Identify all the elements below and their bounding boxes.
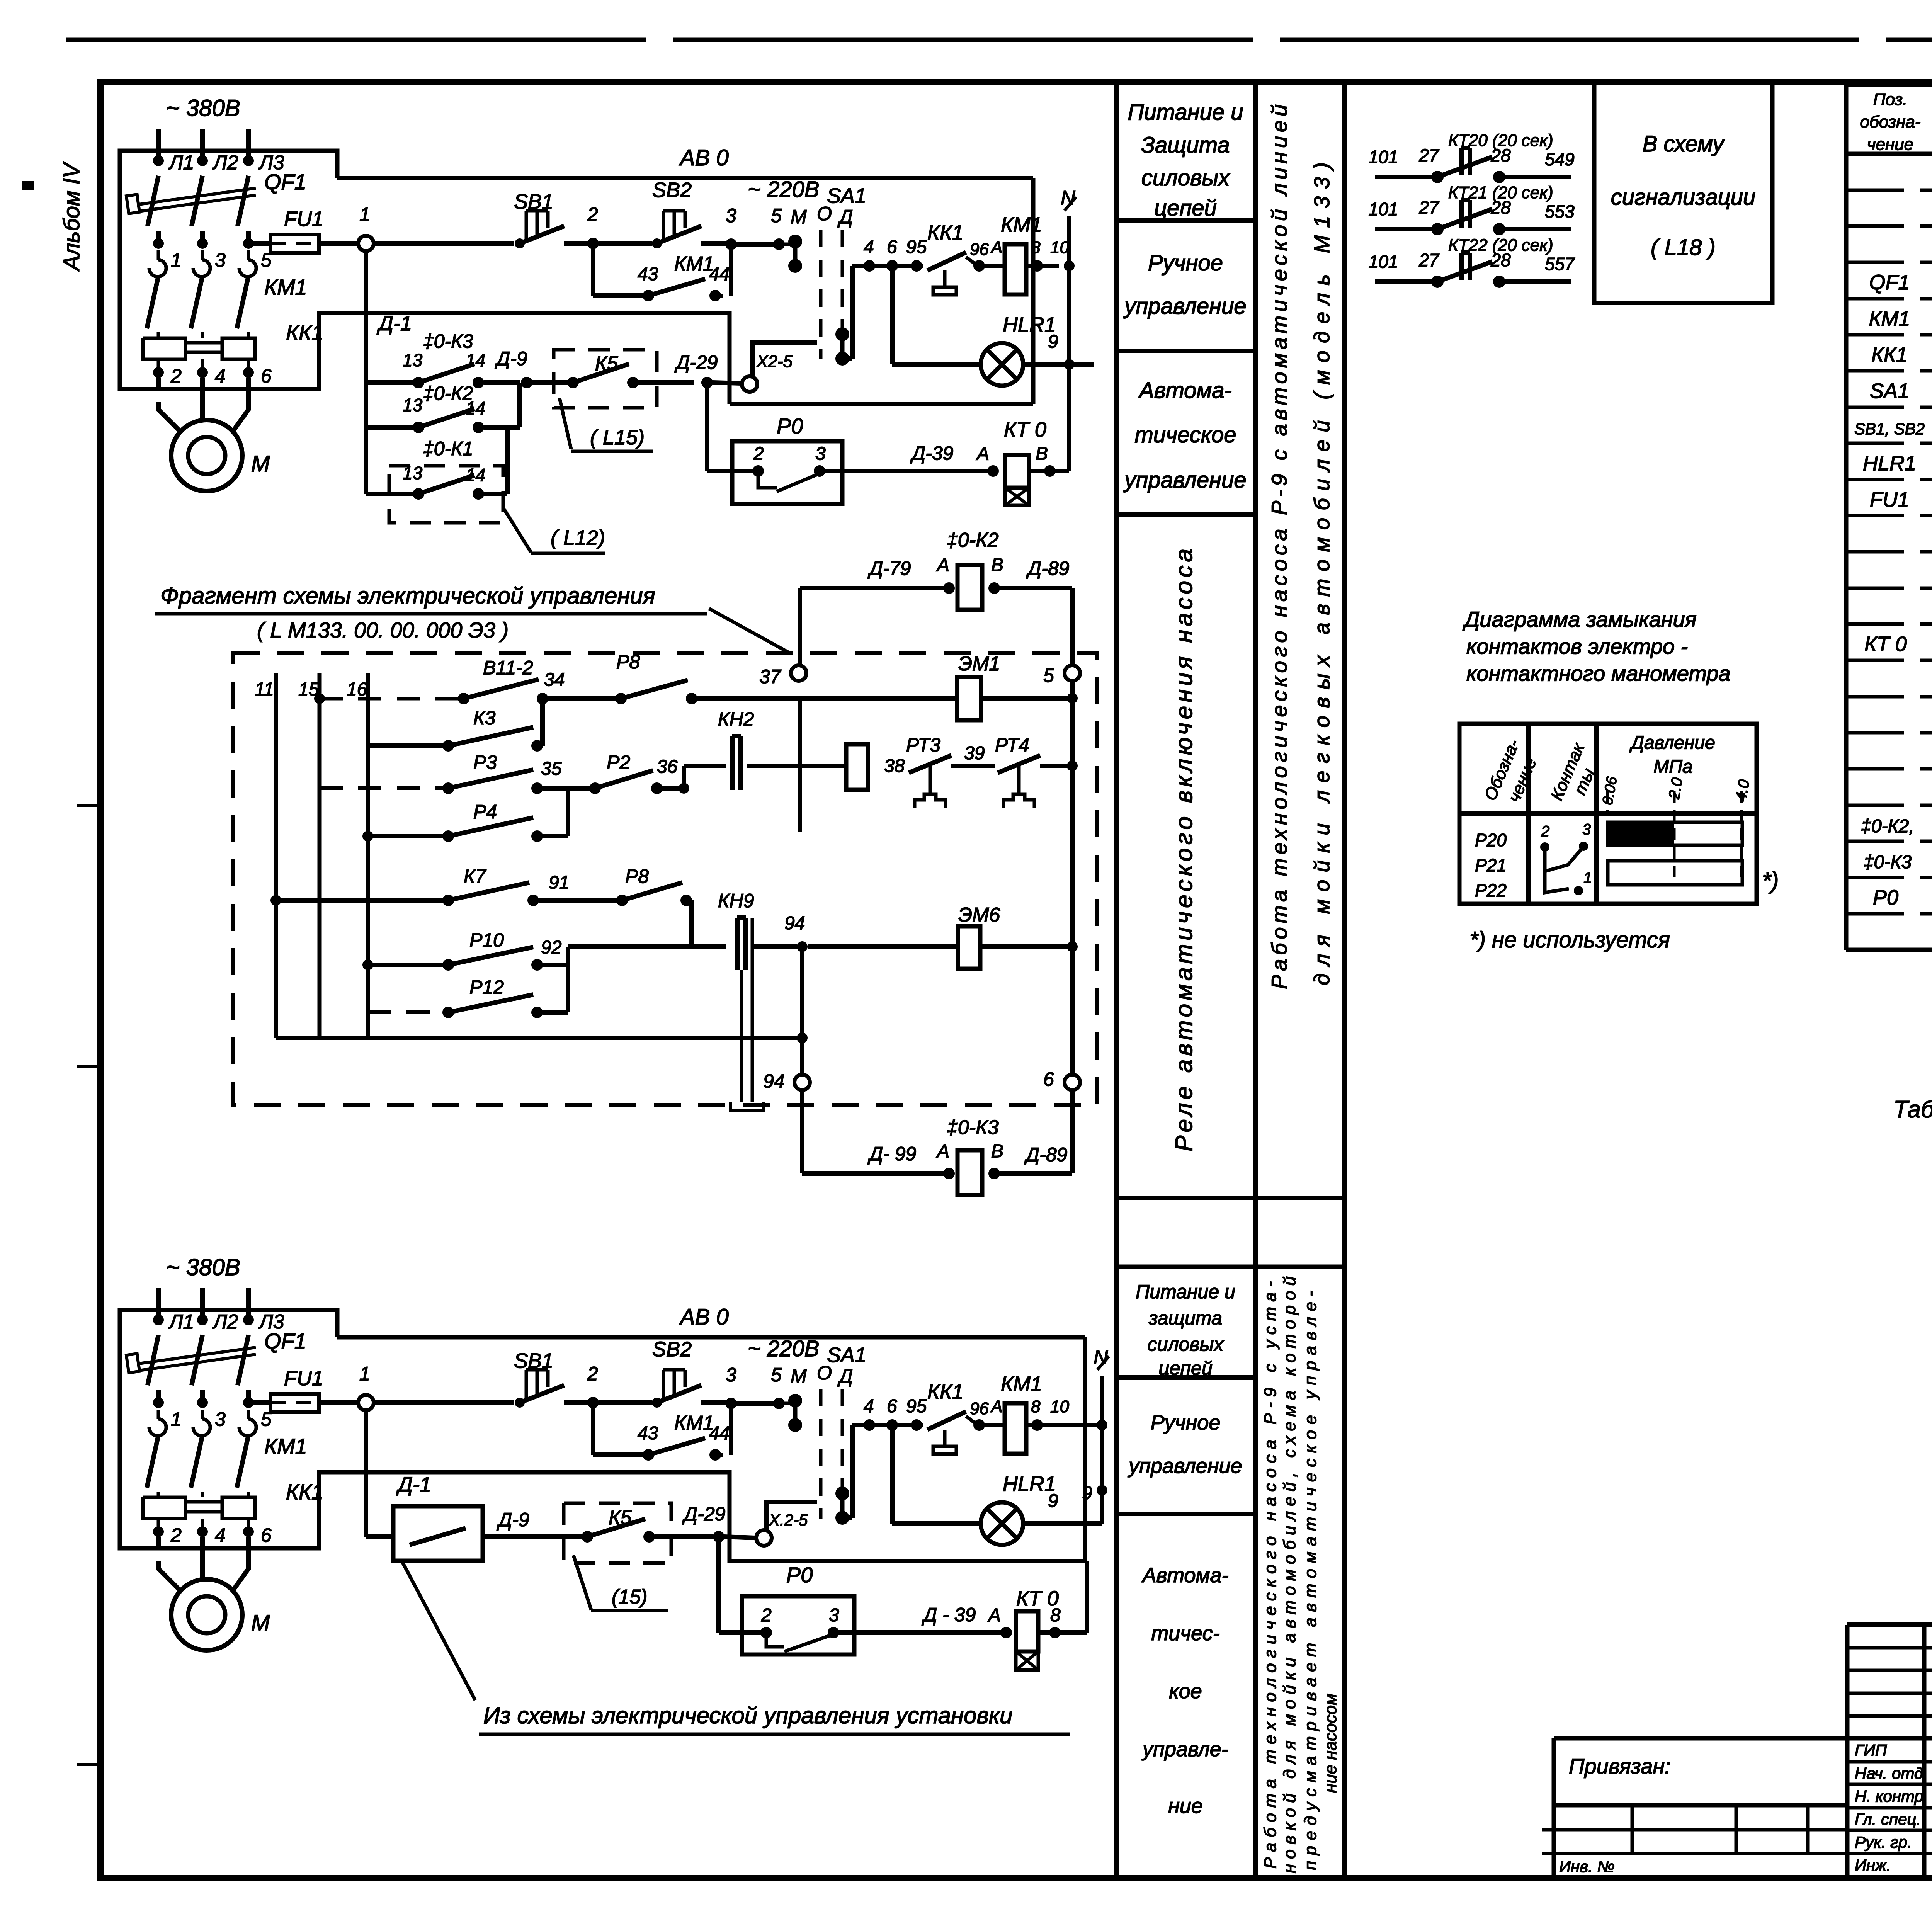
svg-text:101: 101 bbox=[1369, 252, 1398, 272]
svg-text:~ 220В: ~ 220В bbox=[748, 177, 819, 202]
svg-text:КМ1: КМ1 bbox=[1869, 307, 1910, 330]
svg-text:(15): (15) bbox=[612, 1586, 647, 1608]
svg-text:Из схемы электрической упр: Из схемы электрической управления устано… bbox=[483, 1702, 1013, 1728]
svg-text:( L18 ): ( L18 ) bbox=[1651, 235, 1716, 260]
svg-text:Привязан:: Привязан: bbox=[1569, 1754, 1671, 1778]
svg-text:SA1: SA1 bbox=[1870, 379, 1909, 403]
svg-text:‡0-К3: ‡0-К3 bbox=[423, 330, 473, 352]
svg-text:управление: управление bbox=[1127, 1454, 1242, 1478]
svg-text:9: 9 bbox=[1048, 332, 1058, 352]
svg-text:КТ 0: КТ 0 bbox=[1004, 418, 1046, 441]
svg-text:FU1: FU1 bbox=[1870, 488, 1909, 511]
svg-text:92: 92 bbox=[541, 937, 561, 958]
svg-text:Р3: Р3 bbox=[473, 752, 497, 773]
svg-text:4: 4 bbox=[864, 237, 874, 257]
svg-text:К5: К5 bbox=[609, 1507, 632, 1529]
svg-text:( L12): ( L12) bbox=[551, 526, 605, 549]
svg-text:9: 9 bbox=[1048, 1491, 1058, 1511]
svg-text:36: 36 bbox=[657, 757, 678, 777]
svg-text:тичес-: тичес- bbox=[1151, 1622, 1219, 1645]
svg-text:SB2: SB2 bbox=[652, 179, 692, 202]
svg-text:94: 94 bbox=[763, 1070, 785, 1092]
svg-text:тическое: тическое bbox=[1134, 422, 1236, 447]
svg-text:Рук. гр.: Рук. гр. bbox=[1855, 1833, 1912, 1851]
svg-text:Ручное: Ручное bbox=[1151, 1411, 1221, 1434]
svg-text:Давление: Давление bbox=[1629, 733, 1715, 753]
svg-text:цепей: цепей bbox=[1154, 196, 1217, 221]
svg-text:8: 8 bbox=[1031, 1397, 1041, 1416]
svg-text:МПа: МПа bbox=[1653, 757, 1692, 777]
svg-text:Д-39: Д-39 bbox=[910, 442, 953, 464]
svg-text:‡0-К2: ‡0-К2 bbox=[947, 529, 999, 551]
svg-text:‡0-К3: ‡0-К3 bbox=[1864, 852, 1912, 872]
svg-text:АВ 0: АВ 0 bbox=[679, 1304, 729, 1330]
svg-text:Л2: Л2 bbox=[212, 1311, 238, 1333]
svg-text:27: 27 bbox=[1418, 197, 1439, 218]
svg-text:43: 43 bbox=[638, 1423, 658, 1444]
svg-text:6: 6 bbox=[261, 1524, 272, 1546]
svg-text:Фрагмент схемы электрической: Фрагмент схемы электрической управления bbox=[160, 583, 655, 609]
svg-text:557: 557 bbox=[1545, 254, 1575, 274]
svg-text:SB1, SB2: SB1, SB2 bbox=[1854, 420, 1925, 438]
svg-text:Автома-: Автома- bbox=[1141, 1564, 1228, 1587]
svg-text:44: 44 bbox=[709, 1423, 730, 1444]
svg-text:Таблица применяемости: Таблица применяемости bbox=[1893, 1096, 1932, 1123]
svg-text:10: 10 bbox=[1050, 1397, 1069, 1416]
svg-text:М: М bbox=[791, 206, 807, 228]
svg-text:2: 2 bbox=[761, 1605, 772, 1626]
svg-text:3: 3 bbox=[1582, 821, 1591, 838]
svg-text:ЭМ1: ЭМ1 bbox=[958, 653, 1000, 675]
svg-text:Р8: Р8 bbox=[616, 651, 640, 673]
svg-text:управление: управление bbox=[1123, 468, 1246, 493]
svg-text:‡0-К3: ‡0-К3 bbox=[947, 1116, 999, 1139]
svg-text:SB1: SB1 bbox=[514, 1349, 553, 1372]
svg-text:КМ1: КМ1 bbox=[264, 275, 307, 299]
svg-text:Н. контр: Н. контр bbox=[1855, 1787, 1923, 1805]
svg-text:X2-5: X2-5 bbox=[756, 352, 793, 371]
svg-text:3: 3 bbox=[215, 1408, 226, 1430]
svg-text:Р12: Р12 bbox=[469, 976, 504, 998]
svg-text:Гл. спец.: Гл. спец. bbox=[1855, 1810, 1921, 1828]
svg-text:сигнализации: сигнализации bbox=[1611, 185, 1756, 210]
svg-text:Автома-: Автома- bbox=[1138, 378, 1232, 403]
svg-text:SA1: SA1 bbox=[827, 1344, 866, 1367]
svg-text:11: 11 bbox=[255, 679, 274, 700]
svg-text:1: 1 bbox=[171, 1408, 182, 1430]
svg-text:44: 44 bbox=[709, 264, 730, 284]
svg-text:В: В bbox=[991, 1141, 1003, 1162]
svg-text:X.2-5: X.2-5 bbox=[769, 1511, 808, 1529]
svg-text:~ 220В: ~ 220В bbox=[748, 1336, 819, 1361]
svg-text:Диаграмма замыкания: Диаграмма замыкания bbox=[1462, 607, 1697, 631]
svg-text:37: 37 bbox=[759, 666, 782, 687]
svg-text:управле-: управле- bbox=[1141, 1738, 1228, 1761]
svg-text:силовых: силовых bbox=[1141, 165, 1230, 190]
svg-text:Д-1: Д-1 bbox=[396, 1473, 431, 1496]
svg-text:Л1: Л1 bbox=[168, 151, 194, 174]
svg-text:чение: чение bbox=[1867, 135, 1913, 154]
svg-text:ГИП: ГИП bbox=[1855, 1741, 1887, 1759]
svg-text:КК1: КК1 bbox=[927, 221, 964, 244]
svg-text:КК1: КК1 bbox=[286, 320, 323, 345]
svg-text:1: 1 bbox=[171, 249, 182, 271]
svg-text:39: 39 bbox=[964, 743, 985, 764]
svg-text:КМ1: КМ1 bbox=[264, 1434, 307, 1458]
svg-text:Р21: Р21 bbox=[1475, 855, 1507, 875]
svg-text:Инв. №: Инв. № bbox=[1559, 1857, 1615, 1876]
svg-text:защита: защита bbox=[1148, 1307, 1222, 1329]
svg-text:АВ 0: АВ 0 bbox=[679, 145, 729, 170]
svg-text:КК1: КК1 bbox=[1871, 343, 1908, 366]
svg-text:‡0-К2: ‡0-К2 bbox=[423, 383, 473, 404]
svg-text:4: 4 bbox=[215, 1524, 226, 1546]
svg-text:( L М133. 00. 00. 000 Э3 ): ( L М133. 00. 00. 000 Э3 ) bbox=[257, 618, 509, 642]
svg-text:SA1: SA1 bbox=[827, 184, 866, 207]
svg-text:13: 13 bbox=[403, 350, 423, 370]
svg-text:101: 101 bbox=[1369, 147, 1398, 167]
svg-text:РТ4: РТ4 bbox=[995, 734, 1029, 756]
svg-text:Инж.: Инж. bbox=[1855, 1856, 1891, 1874]
svg-text:96: 96 bbox=[970, 240, 989, 259]
svg-text:‡0-К1: ‡0-К1 bbox=[423, 438, 473, 459]
svg-text:Д-89: Д-89 bbox=[1026, 558, 1069, 579]
svg-text:Д - 39: Д - 39 bbox=[922, 1604, 976, 1626]
svg-text:3: 3 bbox=[829, 1605, 839, 1626]
svg-text:Реле автоматического включения: Реле автоматического включения насоса bbox=[1171, 549, 1197, 1151]
svg-text:Д-9: Д-9 bbox=[495, 348, 527, 369]
svg-text:28: 28 bbox=[1490, 197, 1511, 218]
svg-text:94: 94 bbox=[784, 913, 805, 934]
svg-text:Д: Д bbox=[837, 206, 853, 228]
svg-text:Р0: Р0 bbox=[777, 414, 803, 438]
svg-text:М: М bbox=[791, 1365, 807, 1387]
svg-text:цепей: цепей bbox=[1158, 1357, 1213, 1379]
svg-text:QF1: QF1 bbox=[264, 170, 306, 194]
svg-text:HLR1: HLR1 bbox=[1863, 452, 1916, 475]
svg-text:96: 96 bbox=[970, 1399, 989, 1418]
svg-text:Р0: Р0 bbox=[1873, 886, 1898, 909]
svg-text:14: 14 bbox=[466, 465, 485, 485]
svg-text:Д-29: Д-29 bbox=[682, 1503, 725, 1525]
svg-text:91: 91 bbox=[549, 872, 569, 893]
svg-text:контактов электро -: контактов электро - bbox=[1466, 634, 1688, 658]
svg-text:силовых: силовых bbox=[1148, 1333, 1225, 1355]
svg-text:Р20: Р20 bbox=[1475, 830, 1507, 850]
svg-text:27: 27 bbox=[1418, 250, 1439, 270]
svg-text:6: 6 bbox=[261, 365, 272, 387]
svg-text:М: М bbox=[251, 451, 270, 476]
svg-text:Д: Д bbox=[837, 1365, 853, 1387]
svg-text:14: 14 bbox=[466, 350, 485, 370]
svg-text:Защита: Защита bbox=[1141, 133, 1230, 158]
svg-text:Поз.: Поз. bbox=[1873, 90, 1908, 109]
svg-text:Л1: Л1 bbox=[168, 1311, 194, 1333]
svg-text:2: 2 bbox=[170, 365, 182, 387]
svg-text:1: 1 bbox=[359, 1363, 370, 1384]
svg-text:КТ 0: КТ 0 bbox=[1864, 633, 1907, 656]
svg-text:4: 4 bbox=[215, 365, 226, 387]
svg-text:КН2: КН2 bbox=[718, 708, 754, 730]
svg-text:6: 6 bbox=[1043, 1068, 1054, 1090]
svg-text:38: 38 bbox=[884, 756, 905, 776]
svg-text:А: А bbox=[976, 444, 989, 464]
svg-text:Р10: Р10 bbox=[469, 929, 504, 951]
svg-text:34: 34 bbox=[544, 670, 565, 690]
svg-text:РТ3: РТ3 bbox=[906, 734, 940, 756]
svg-text:~ 380В: ~ 380В bbox=[166, 95, 240, 121]
svg-text:FU1: FU1 bbox=[284, 1367, 323, 1390]
svg-text:8: 8 bbox=[1050, 1605, 1061, 1626]
svg-text:2: 2 bbox=[753, 444, 764, 464]
svg-text:А: А bbox=[936, 1141, 949, 1162]
svg-text:QF1: QF1 bbox=[264, 1329, 306, 1353]
svg-text:*): *) bbox=[1762, 868, 1779, 894]
svg-text:А: А bbox=[936, 555, 949, 575]
svg-text:Питание и: Питание и bbox=[1136, 1281, 1235, 1303]
svg-text:‡0-К2,: ‡0-К2, bbox=[1861, 816, 1914, 837]
svg-text:95: 95 bbox=[906, 237, 927, 257]
svg-text:КМ1: КМ1 bbox=[1001, 213, 1042, 236]
svg-text:КМ1: КМ1 bbox=[1001, 1372, 1042, 1396]
svg-text:В схему: В схему bbox=[1643, 131, 1725, 156]
svg-text:В11-2: В11-2 bbox=[483, 657, 533, 679]
svg-text:28: 28 bbox=[1490, 145, 1511, 165]
svg-text:КН9: КН9 bbox=[718, 890, 754, 912]
svg-text:Л2: Л2 bbox=[212, 151, 238, 174]
svg-text:9: 9 bbox=[1082, 1483, 1092, 1503]
svg-text:А: А bbox=[987, 1605, 1001, 1626]
svg-text:Д-1: Д-1 bbox=[377, 312, 412, 335]
svg-text:3: 3 bbox=[726, 205, 736, 226]
svg-text:1: 1 bbox=[359, 204, 370, 225]
svg-text:2: 2 bbox=[587, 204, 598, 225]
svg-text:Д-9: Д-9 bbox=[497, 1509, 529, 1531]
svg-text:6: 6 bbox=[887, 237, 897, 257]
svg-text:кое: кое bbox=[1169, 1680, 1202, 1703]
svg-text:549: 549 bbox=[1545, 149, 1575, 169]
svg-text:Д-79: Д-79 bbox=[867, 558, 911, 579]
svg-text:Ручное: Ручное bbox=[1148, 250, 1223, 276]
svg-text:КК1: КК1 bbox=[927, 1380, 964, 1403]
svg-text:Р8: Р8 bbox=[625, 866, 649, 887]
svg-text:13: 13 bbox=[403, 463, 423, 483]
svg-text:101: 101 bbox=[1369, 199, 1398, 219]
svg-text:ЭМ6: ЭМ6 bbox=[958, 904, 1000, 926]
svg-text:95: 95 bbox=[906, 1396, 927, 1417]
svg-text:10: 10 bbox=[1050, 238, 1069, 257]
svg-text:4: 4 bbox=[864, 1396, 874, 1417]
svg-text:2: 2 bbox=[170, 1524, 182, 1546]
svg-text:35: 35 bbox=[541, 759, 562, 779]
svg-text:управление: управление bbox=[1123, 294, 1246, 319]
svg-text:контактного манометра: контактного манометра bbox=[1466, 661, 1731, 685]
svg-text:Р2: Р2 bbox=[607, 752, 630, 773]
svg-text:*) не используется: *) не используется bbox=[1469, 927, 1670, 952]
svg-text:К7: К7 bbox=[464, 866, 486, 887]
svg-text:( L15): ( L15) bbox=[590, 426, 645, 449]
svg-text:28: 28 bbox=[1490, 250, 1511, 270]
svg-text:553: 553 bbox=[1545, 201, 1575, 221]
svg-text:Р22: Р22 bbox=[1475, 880, 1507, 900]
svg-text:6: 6 bbox=[887, 1396, 897, 1417]
svg-text:16: 16 bbox=[347, 679, 367, 700]
svg-text:Р4: Р4 bbox=[473, 801, 497, 823]
svg-text:КМ1: КМ1 bbox=[674, 1412, 714, 1434]
svg-text:Д-89: Д-89 bbox=[1024, 1144, 1067, 1165]
svg-text:43: 43 bbox=[638, 264, 658, 284]
svg-text:А: А bbox=[990, 238, 1002, 257]
svg-text:ние: ние bbox=[1168, 1794, 1203, 1818]
svg-text:3: 3 bbox=[726, 1364, 736, 1386]
svg-text:Д-29: Д-29 bbox=[674, 352, 718, 373]
svg-text:Д- 99: Д- 99 bbox=[867, 1143, 916, 1165]
svg-text:5: 5 bbox=[771, 205, 782, 226]
svg-text:К3: К3 bbox=[473, 707, 495, 729]
svg-text:В: В bbox=[991, 555, 1003, 575]
svg-text:Питание и: Питание и bbox=[1128, 100, 1243, 125]
svg-text:SB2: SB2 bbox=[652, 1338, 692, 1361]
svg-text:М: М bbox=[251, 1611, 270, 1636]
svg-text:27: 27 bbox=[1418, 145, 1439, 165]
svg-text:К5: К5 bbox=[595, 352, 619, 375]
svg-text:13: 13 bbox=[403, 395, 423, 415]
svg-text:2: 2 bbox=[587, 1363, 598, 1384]
svg-text:SB1: SB1 bbox=[514, 190, 553, 213]
svg-text:Альбом IV: Альбом IV bbox=[59, 161, 84, 272]
svg-text:КМ1: КМ1 bbox=[674, 253, 714, 275]
svg-text:Р0: Р0 bbox=[786, 1563, 813, 1587]
svg-text:2: 2 bbox=[1541, 823, 1549, 840]
svg-text:3: 3 bbox=[215, 249, 226, 271]
svg-text:~ 380В: ~ 380В bbox=[166, 1254, 240, 1280]
svg-text:ние насосом: ние насосом bbox=[1321, 1694, 1340, 1793]
svg-text:В: В bbox=[1036, 444, 1048, 464]
svg-text:5: 5 bbox=[771, 1364, 782, 1386]
svg-text:3: 3 bbox=[815, 444, 826, 464]
svg-text:А: А bbox=[990, 1397, 1002, 1416]
svg-text:КК1: КК1 bbox=[286, 1480, 323, 1504]
svg-text:FU1: FU1 bbox=[284, 207, 323, 231]
svg-text:QF1: QF1 bbox=[1869, 271, 1910, 294]
svg-text:обозна-: обозна- bbox=[1860, 112, 1921, 131]
svg-text:Нач. отд: Нач. отд bbox=[1855, 1764, 1923, 1782]
svg-text:5: 5 bbox=[1043, 665, 1054, 686]
svg-text:1: 1 bbox=[1583, 869, 1592, 886]
